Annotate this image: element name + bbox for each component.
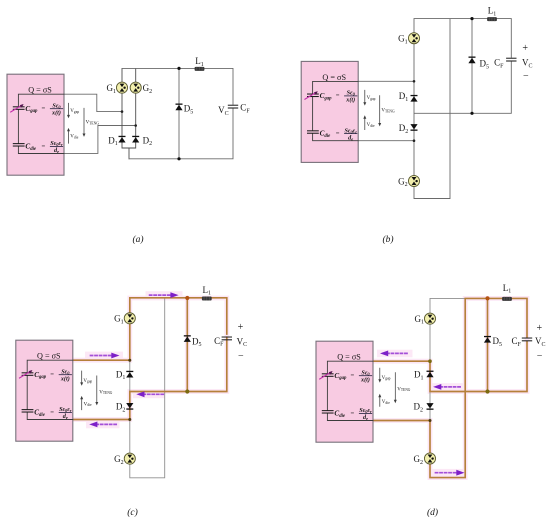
- svg-text:+: +: [238, 322, 244, 333]
- svg-text:D1: D1: [414, 370, 424, 382]
- svg-text:G1: G1: [107, 83, 117, 95]
- svg-text:VC: VC: [522, 58, 533, 70]
- svg-text:L1: L1: [203, 285, 212, 297]
- svg-text:−: −: [238, 351, 244, 362]
- svg-text:(c): (c): [127, 507, 138, 518]
- svg-text:G2: G2: [414, 454, 424, 466]
- svg-text:D2: D2: [143, 135, 153, 147]
- svg-text:CF: CF: [214, 336, 224, 348]
- svg-text:G1: G1: [415, 314, 425, 326]
- svg-text:D5: D5: [480, 59, 490, 71]
- svg-text:G2: G2: [143, 83, 153, 95]
- svg-text:+: +: [522, 43, 528, 54]
- svg-text:G1: G1: [398, 34, 408, 46]
- svg-text:Vdie: Vdie: [367, 123, 375, 128]
- svg-text:VTENG: VTENG: [86, 120, 100, 125]
- svg-text:G2: G2: [398, 176, 408, 188]
- svg-text:D2: D2: [116, 402, 125, 414]
- svg-text:Vgap: Vgap: [382, 376, 391, 381]
- svg-text:D2: D2: [414, 402, 424, 414]
- svg-text:VC: VC: [218, 105, 229, 117]
- svg-text:Vgap: Vgap: [83, 379, 92, 384]
- svg-text:CF: CF: [240, 103, 250, 115]
- svg-text:CF: CF: [511, 336, 521, 348]
- svg-text:D1: D1: [108, 135, 118, 147]
- svg-text:+: +: [537, 323, 543, 334]
- svg-text:Vgap: Vgap: [70, 109, 79, 114]
- svg-text:D1: D1: [116, 369, 125, 381]
- svg-text:D1: D1: [399, 91, 409, 103]
- svg-text:VTENG: VTENG: [381, 108, 395, 113]
- svg-text:VTENG: VTENG: [397, 387, 411, 392]
- svg-text:(d): (d): [427, 507, 438, 518]
- svg-text:−: −: [523, 71, 529, 82]
- svg-text:VTENG: VTENG: [99, 390, 113, 395]
- svg-text:G2: G2: [114, 454, 124, 466]
- svg-text:G1: G1: [114, 314, 124, 326]
- svg-text:D5: D5: [192, 336, 202, 348]
- svg-text:D5: D5: [493, 336, 503, 348]
- svg-text:Vdie: Vdie: [70, 134, 78, 139]
- svg-text:Vdie: Vdie: [382, 400, 390, 405]
- svg-text:Vdie: Vdie: [84, 402, 92, 407]
- svg-text:L1: L1: [195, 56, 204, 68]
- svg-text:D5: D5: [184, 104, 194, 116]
- svg-text:(a): (a): [132, 234, 143, 245]
- svg-text:Vgap: Vgap: [367, 96, 376, 101]
- svg-text:VC: VC: [535, 336, 546, 348]
- svg-text:L1: L1: [503, 283, 512, 295]
- svg-text:(b): (b): [382, 234, 393, 245]
- svg-text:D2: D2: [399, 123, 409, 135]
- svg-text:VC: VC: [237, 336, 248, 348]
- svg-text:CF: CF: [494, 58, 504, 70]
- svg-text:−: −: [537, 351, 543, 362]
- svg-text:L1: L1: [488, 6, 497, 18]
